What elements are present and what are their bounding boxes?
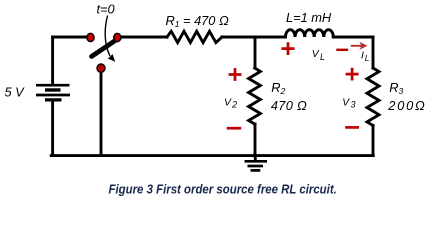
svg-text:V3: V3	[342, 97, 355, 109]
svg-text:470 Ω: 470 Ω	[271, 98, 307, 113]
svg-text:5 V: 5 V	[5, 84, 26, 99]
svg-text:200Ω: 200Ω	[387, 98, 426, 113]
svg-text:V2: V2	[224, 98, 237, 110]
svg-text:t=0: t=0	[97, 2, 116, 17]
svg-text:L=1 mH: L=1 mH	[286, 10, 332, 25]
svg-text:Figure 3 First order source fr: Figure 3 First order source free RL circ…	[109, 181, 337, 196]
svg-text:IL: IL	[361, 50, 370, 63]
